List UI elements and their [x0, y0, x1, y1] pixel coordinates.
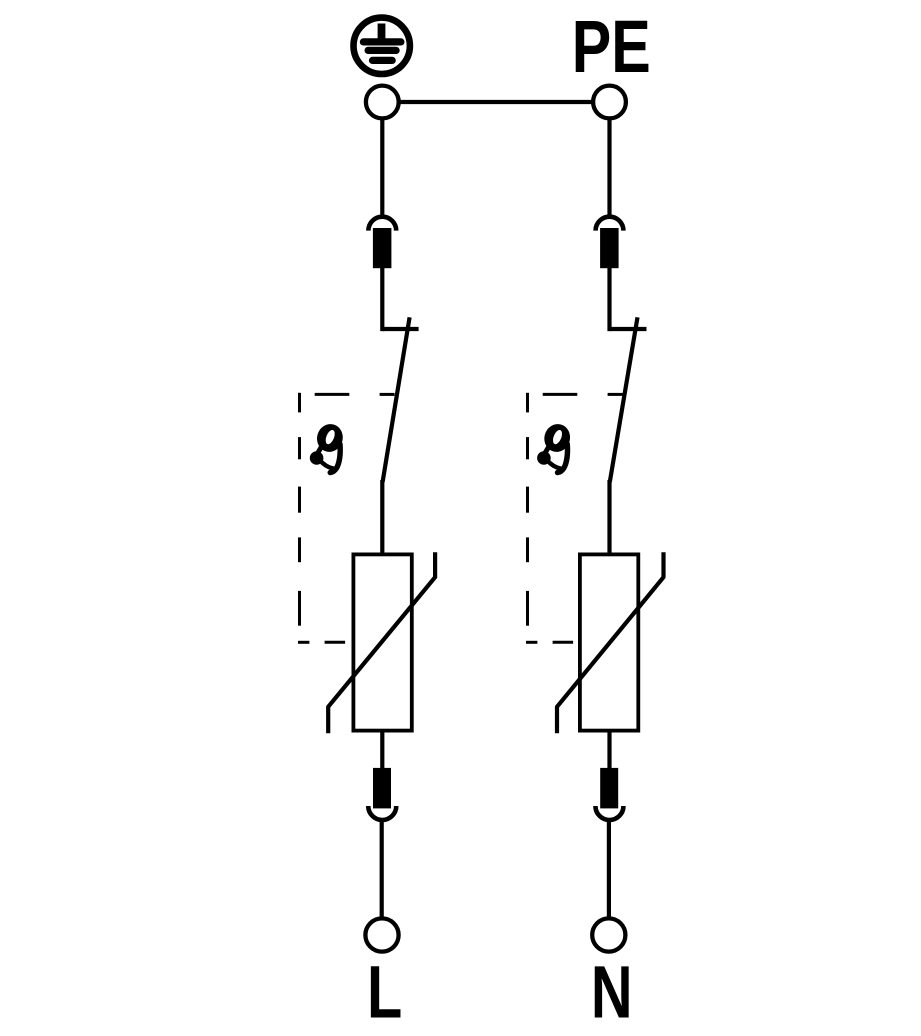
svg-text:PE: PE	[572, 6, 651, 89]
svg-text:L: L	[367, 952, 402, 1035]
svg-text:N: N	[591, 952, 633, 1035]
